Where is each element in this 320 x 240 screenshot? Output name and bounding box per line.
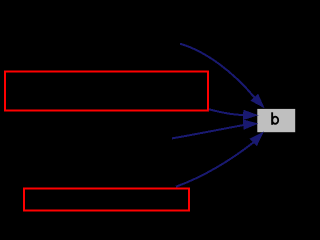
- node box2 (red-bordered caller, label invisible on black): [24, 189, 189, 211]
- label "b" (drawn as vector glyph): [271, 112, 273, 125]
- node box1 (red-bordered caller, label invisible on black): [5, 72, 208, 111]
- edge arrow B (from box1 right edge to left edge of b): [209, 109, 257, 119]
- edge arrow C (from middle hidden node to left edge of b): [172, 120, 257, 138]
- node b (current node, grey fill): [257, 109, 295, 132]
- edge arrow D (from box2 top edge, curving up to bottom edge of b): [176, 133, 263, 187]
- edge arrow A (from top hidden node, curving down to top edge of b): [180, 44, 264, 107]
